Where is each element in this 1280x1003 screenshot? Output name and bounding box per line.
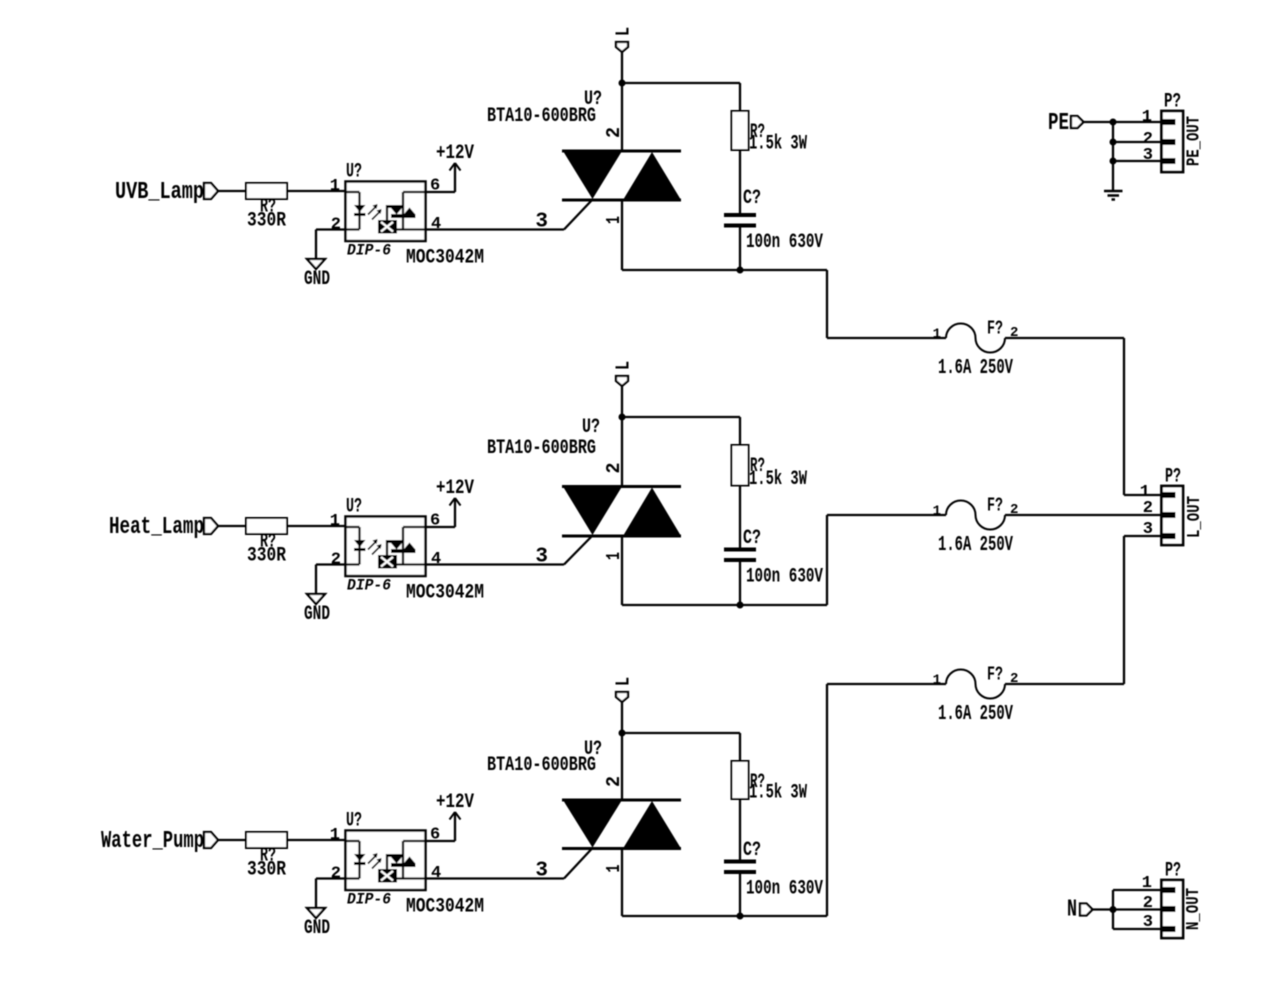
wire [287,525,345,527]
opto detector triac [403,840,425,842]
svg-text:1.6A 250V: 1.6A 250V [938,703,1013,726]
resistor R3 330R [246,832,287,848]
wire [739,799,741,860]
svg-text:DIP-6: DIP-6 [347,242,391,260]
svg-text:3: 3 [535,546,548,569]
wire pin4 to triac gate [426,877,565,879]
svg-text:U?: U? [346,496,362,519]
wire to fuse [622,269,827,271]
svg-text:C?: C? [743,839,761,862]
svg-text:1: 1 [933,673,941,689]
power +12V flag [450,812,456,820]
opto-isolator U3 MOC3042M [346,831,426,891]
wire [1084,121,1162,123]
svg-text:1: 1 [1142,874,1152,893]
svg-text:1.5k 3W: 1.5k 3W [749,133,807,156]
wire [621,702,623,800]
wire [287,190,345,192]
svg-text:DIP-6: DIP-6 [347,577,391,595]
svg-text:1: 1 [330,177,340,196]
svg-text:3: 3 [1143,913,1153,932]
wire pin6 to +12V [426,526,456,528]
wire [622,416,740,418]
fuse F1 1.6A 250V [946,324,1005,353]
svg-text:100n 630V: 100n 630V [746,231,823,254]
junction [737,913,744,920]
wire from fuse [1005,337,1124,339]
fuse F3 1.6A 250V [946,670,1005,699]
opto light arrows [368,541,377,550]
resistor R2 330R [246,518,287,534]
svg-text:F?: F? [987,664,1003,686]
svg-text:1: 1 [933,504,941,520]
wire [621,849,623,917]
svg-text:1.5k 3W: 1.5k 3W [749,782,807,805]
junction [619,414,626,421]
svg-text:MOC3042M: MOC3042M [406,896,484,919]
earth ground [1104,190,1123,193]
svg-text:BTA10-600BRG: BTA10-600BRG [487,105,596,128]
svg-text:1.5k 3W: 1.5k 3W [749,468,807,491]
wire [621,52,623,151]
wire [1113,889,1161,891]
svg-text:+12V: +12V [436,142,474,165]
wire [622,82,740,84]
svg-text:4: 4 [431,215,441,234]
svg-text:+12V: +12V [436,791,474,814]
resistor R1 330R [246,183,287,199]
power +12V flag [450,498,456,506]
svg-text:2: 2 [603,776,625,787]
svg-text:2: 2 [1143,499,1153,518]
svg-text:F?: F? [987,495,1003,517]
svg-text:1: 1 [933,327,941,343]
wire [1112,122,1114,190]
power +12V flag [450,163,456,171]
svg-text:1: 1 [330,512,340,531]
svg-text:330R: 330R [247,545,286,568]
svg-text:2: 2 [1143,894,1153,913]
opto light arrows [368,855,377,864]
junction [1110,158,1117,165]
wire [1113,160,1161,162]
svg-text:L: L [613,361,635,370]
svg-text:3: 3 [535,211,548,234]
svg-text:U?: U? [582,416,600,439]
svg-text:MOC3042M: MOC3042M [406,582,484,605]
wire pin2 to ground [316,228,346,230]
opto detector triac [403,191,425,193]
svg-text:3: 3 [1143,146,1153,165]
svg-text:BTA10-600BRG: BTA10-600BRG [487,437,596,460]
svg-text:3: 3 [535,860,548,883]
svg-text:L: L [613,677,635,686]
wire to fuse [622,604,827,606]
junction [737,267,744,274]
svg-text:Water_Pump: Water_Pump [101,828,204,855]
wire from fuse [1005,683,1124,685]
wire [739,150,741,213]
opto LED [346,526,360,528]
wire pin2 to ground [316,563,346,565]
svg-text:Heat_Lamp: Heat_Lamp [109,514,204,541]
wire [739,874,741,916]
wire pin6 to +12V [426,840,456,842]
svg-text:C?: C? [743,187,761,210]
svg-text:3: 3 [1143,520,1153,539]
fuse F2 1.6A 250V [946,501,1005,530]
svg-text:+12V: +12V [436,477,474,500]
svg-text:1.6A 250V: 1.6A 250V [938,357,1013,380]
svg-text:2: 2 [603,127,625,138]
svg-text:1: 1 [1142,108,1152,127]
junction [619,80,626,87]
wire [622,732,740,734]
wire [1112,890,1114,929]
svg-text:UVB_Lamp: UVB_Lamp [115,179,204,206]
svg-text:N: N [1067,897,1077,924]
svg-text:4: 4 [431,550,441,569]
opto-isolator U2 MOC3042M [346,517,426,577]
wire [739,228,741,271]
svg-text:1: 1 [330,826,340,845]
svg-text:C?: C? [743,527,761,550]
resistor R4 1.5k 3W [739,83,741,111]
ground GND2 [307,594,325,604]
wire to fuse [622,915,827,917]
wire [1093,908,1162,910]
opto LED [346,191,360,193]
resistor R6 1.5k 3W [739,733,741,761]
svg-text:4: 4 [431,864,441,883]
opto zero-cross box [378,220,397,234]
svg-text:PE_OUT: PE_OUT [1185,116,1205,166]
ground GND3 [307,908,325,918]
svg-text:330R: 330R [247,210,286,233]
opto-isolator U1 MOC3042M [346,182,426,242]
wire [218,190,246,192]
wire pin2 to ground [316,877,346,879]
svg-text:100n 630V: 100n 630V [746,566,823,589]
wire [621,536,623,605]
opto detector triac [403,526,425,528]
svg-text:330R: 330R [247,859,286,882]
svg-text:DIP-6: DIP-6 [347,891,391,909]
svg-text:U?: U? [346,810,362,833]
svg-text:1.6A 250V: 1.6A 250V [938,534,1013,557]
wire [218,839,246,841]
svg-text:BTA10-600BRG: BTA10-600BRG [487,754,596,777]
wire [621,200,623,270]
svg-text:L: L [613,27,635,36]
opto zero-cross box [378,555,397,569]
wire [287,839,345,841]
wire [218,525,246,527]
svg-text:GND: GND [304,917,330,940]
svg-text:GND: GND [304,268,330,291]
svg-text:U?: U? [346,161,362,184]
svg-text:PE: PE [1048,110,1069,137]
svg-text:2: 2 [331,551,341,570]
wire pin4 to triac gate [426,228,565,230]
opto LED [346,840,360,842]
wire pin6 to +12V [426,191,456,193]
svg-text:N_OUT: N_OUT [1184,888,1204,930]
opto light arrows [368,206,377,215]
svg-text:2: 2 [331,216,341,235]
svg-text:100n 630V: 100n 630V [746,878,823,901]
wire [621,386,623,487]
svg-text:MOC3042M: MOC3042M [406,247,484,270]
svg-text:2: 2 [331,865,341,884]
ground GND1 [307,259,325,269]
wire [739,486,741,548]
junction [737,602,744,609]
junction [1110,906,1117,913]
svg-text:2: 2 [603,463,625,474]
wire from fuse [1005,514,1161,516]
wire [1113,928,1161,930]
wire [739,562,741,605]
resistor R5 1.5k 3W [739,417,741,445]
junction [1110,139,1117,146]
svg-text:GND: GND [304,603,330,626]
opto zero-cross box [378,869,397,883]
svg-text:L_OUT: L_OUT [1185,496,1205,538]
wire pin4 to triac gate [426,563,565,565]
junction [1110,119,1117,126]
svg-text:F?: F? [987,318,1003,340]
wire [1113,141,1161,143]
junction [619,730,626,737]
